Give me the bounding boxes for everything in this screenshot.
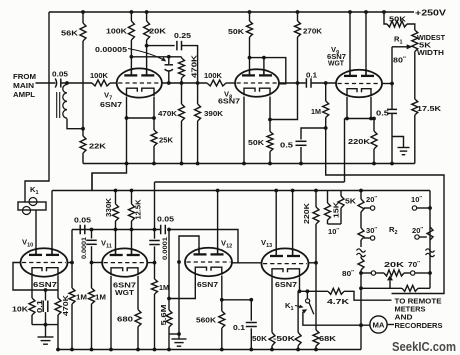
wire 15K 5K join xyxy=(328,223,342,225)
node V8 plate 2 xyxy=(262,56,266,60)
svg-text:68K: 68K xyxy=(319,334,337,343)
wire V11 grid stub xyxy=(92,262,103,264)
resistor 20K xyxy=(144,12,150,46)
node tap10 xyxy=(428,206,432,210)
wire V12 k right xyxy=(221,276,223,300)
node 1M a bus xyxy=(70,348,74,352)
node 0.5V9 bus xyxy=(390,162,394,166)
wire V8 plate pins xyxy=(250,58,264,76)
label 10K xyxy=(12,305,29,314)
node trimmer-grid xyxy=(167,81,171,85)
label 22K xyxy=(89,142,107,151)
node V7 k right xyxy=(152,116,156,120)
wire pot line xyxy=(361,272,430,274)
svg-text:MAIN: MAIN xyxy=(13,81,34,90)
wire 5.6M bus xyxy=(168,334,170,350)
node 0.05b left xyxy=(153,228,157,232)
svg-text:0.0001: 0.0001 xyxy=(162,237,169,260)
resistor 220K xyxy=(371,119,377,164)
node V9 k1 xyxy=(345,117,349,121)
resistor 1M b xyxy=(89,263,95,350)
svg-text:100K: 100K xyxy=(106,27,128,36)
label 6SN7 V13 xyxy=(275,280,297,289)
node 0.1b bus xyxy=(249,348,253,352)
svg-text:1M: 1M xyxy=(95,293,106,302)
ground V9 xyxy=(398,148,410,155)
label 0.05 b xyxy=(157,215,175,224)
node 22K bias xyxy=(125,162,129,166)
label 1M b xyxy=(95,293,106,302)
potentiometer 20K xyxy=(384,270,404,288)
node V9 k2 xyxy=(369,117,373,121)
label 4.7K xyxy=(327,297,350,306)
label 0.5 V9 xyxy=(376,109,390,118)
node chain top right xyxy=(428,271,432,275)
wire input to grid xyxy=(61,82,92,84)
wire V7 grid out xyxy=(162,82,208,84)
wire 220Kb down xyxy=(315,263,317,330)
node K1 tap xyxy=(306,289,310,293)
resistor 70in xyxy=(402,285,418,291)
node 5.6M top xyxy=(167,297,171,301)
wire cathode out xyxy=(300,290,329,292)
node bus-270K xyxy=(296,10,300,14)
wire V12 plate pin xyxy=(217,191,219,256)
label 5K chain xyxy=(345,197,357,206)
label 0.1 coupling xyxy=(306,71,318,80)
svg-text:25K: 25K xyxy=(159,136,174,145)
svg-text:0.05: 0.05 xyxy=(157,215,175,224)
node V9 grid xyxy=(390,82,394,86)
node 0.5 bus xyxy=(299,162,303,166)
node V12 k right xyxy=(220,298,224,302)
tap 10in xyxy=(412,206,430,210)
label 12.5K xyxy=(134,199,143,220)
wire V10 grid stub xyxy=(68,262,73,264)
wire V9 grid right xyxy=(382,83,392,85)
wire 5.6M gnd link xyxy=(169,333,179,335)
wire 470K to bus xyxy=(57,325,59,350)
resistor 1M a xyxy=(69,263,75,350)
node V8 plate 1 xyxy=(248,56,252,60)
svg-text:50K: 50K xyxy=(252,334,268,343)
wire row1 bus xyxy=(83,163,415,165)
resistor 4.7K xyxy=(328,288,392,300)
wire V7 cathode bus xyxy=(127,117,155,119)
wire V9 plate pins xyxy=(350,12,366,76)
svg-text:20K: 20K xyxy=(149,27,167,36)
svg-text:1M: 1M xyxy=(159,283,169,292)
label 470K V10 xyxy=(61,294,70,316)
resistor 220K b xyxy=(313,191,319,263)
label 50K V13a xyxy=(252,334,268,343)
wire V11 k left xyxy=(110,276,112,350)
label 50K V8 cathode xyxy=(248,138,265,147)
label 17.5K xyxy=(417,104,442,113)
node V8 grid loop xyxy=(296,81,300,85)
ground V12 xyxy=(172,334,187,346)
label 80in chain xyxy=(342,269,354,278)
node bus-100K xyxy=(130,10,134,14)
svg-text:470K: 470K xyxy=(158,109,178,118)
wire 0.5 V9 down xyxy=(391,113,393,163)
node 50K bus xyxy=(268,162,272,166)
svg-text:270K: 270K xyxy=(303,27,323,36)
resistor 100K plate xyxy=(128,12,134,57)
label 1M c xyxy=(159,283,169,292)
relay K1 coil xyxy=(18,198,46,215)
label 680 xyxy=(117,315,133,324)
label 25K xyxy=(159,136,174,145)
wire V8 out xyxy=(279,82,306,84)
resistor -50K xyxy=(295,291,301,349)
label 50K V8 xyxy=(228,27,245,36)
terminal a xyxy=(371,271,375,275)
label 6SN7 V12 xyxy=(197,280,218,289)
node -50K bus xyxy=(296,348,300,352)
svg-text:0.0001: 0.0001 xyxy=(81,237,88,259)
wire rail2a drop xyxy=(154,182,156,230)
resistor 470K fb xyxy=(179,57,185,83)
wire V9 cathode bus xyxy=(345,118,375,120)
capacitor 0.25 xyxy=(177,41,182,51)
label K1 switch xyxy=(285,301,304,312)
label K1 relay xyxy=(30,185,39,196)
wire 0.05a to V10 grid xyxy=(71,230,73,263)
capacitor 0.0001 a xyxy=(86,230,97,263)
tube V12 xyxy=(185,247,232,276)
label V10 xyxy=(22,238,33,249)
tube V13 xyxy=(262,248,309,279)
node bus V9 p2 xyxy=(364,10,368,14)
resistor 470K V10 xyxy=(55,290,61,325)
wire ground branch xyxy=(392,137,404,148)
node rail-R2 xyxy=(359,189,363,193)
svg-text:1M: 1M xyxy=(76,293,87,302)
node 0.1b top xyxy=(249,298,253,302)
node V7 plate junction xyxy=(130,55,134,59)
wire row2 bus xyxy=(58,349,361,351)
svg-text:0.00005: 0.00005 xyxy=(95,45,128,54)
svg-text:5K: 5K xyxy=(419,43,431,50)
label V9 xyxy=(331,45,339,56)
node input coil xyxy=(65,81,69,85)
node V13 k right xyxy=(298,289,302,293)
svg-text:WIDEST: WIDEST xyxy=(417,35,446,42)
label 70in xyxy=(408,260,420,269)
node 5.6M bus xyxy=(167,348,171,352)
node rail-220Kb xyxy=(314,189,318,193)
node 25K bus xyxy=(152,162,156,166)
svg-text:WGT: WGT xyxy=(115,288,134,297)
label 20K xyxy=(149,27,167,36)
tap 30in xyxy=(364,236,375,240)
node 1M bottom xyxy=(324,126,328,130)
label 10in a xyxy=(328,227,339,236)
wire 0.25 left xyxy=(147,45,175,47)
resistor 1M V9grid xyxy=(323,83,329,128)
capacitor trimmer 0.00005 xyxy=(165,57,173,83)
label 50K B+ xyxy=(389,15,407,24)
resistor 17.5K xyxy=(412,99,418,164)
resistor 50K B+ xyxy=(384,12,415,30)
resistor 270K xyxy=(295,12,301,83)
label 0.1 V12 xyxy=(233,323,246,332)
node coil-56K-22K xyxy=(81,127,85,131)
node 330K plate xyxy=(114,228,118,232)
svg-text:5K: 5K xyxy=(345,197,357,206)
wire grid loop down xyxy=(270,83,298,120)
node 470K-grid xyxy=(180,81,184,85)
svg-text:470K: 470K xyxy=(190,54,199,78)
svg-text:0.1: 0.1 xyxy=(306,71,318,80)
svg-text:6SN7: 6SN7 xyxy=(275,280,297,289)
label V12 xyxy=(221,239,232,250)
svg-text:50K: 50K xyxy=(389,15,407,24)
label 68K xyxy=(319,334,337,343)
svg-text:10K: 10K xyxy=(12,305,29,314)
resistor 20in xyxy=(358,191,364,229)
label 0.5 V8 xyxy=(280,141,294,150)
svg-text:6SN7: 6SN7 xyxy=(33,280,57,289)
node 0.1 top xyxy=(44,288,48,292)
label WGT V9 xyxy=(328,59,345,68)
node bus-50K right xyxy=(382,10,386,14)
capacitor 0.0001 b xyxy=(149,230,160,263)
svg-text:100K: 100K xyxy=(204,71,223,80)
wire V8 plate link xyxy=(250,58,286,84)
svg-text:330K: 330K xyxy=(104,197,113,217)
svg-text:15K: 15K xyxy=(332,201,341,218)
resistor 5K chain xyxy=(338,191,344,225)
resistor 25K xyxy=(151,118,157,164)
label V11 xyxy=(101,239,112,250)
wire 100K to V7 grid xyxy=(110,82,117,84)
wire V11 plate pins xyxy=(116,230,132,256)
label 20K pot xyxy=(384,260,405,269)
capacitor 0.5 V8 xyxy=(296,141,307,145)
wire V10 grid loop xyxy=(13,263,32,291)
wire V10 k pins xyxy=(32,276,58,291)
node V8 k left bus xyxy=(242,162,246,166)
svg-text:6SN7: 6SN7 xyxy=(100,100,122,109)
node 68K bus xyxy=(314,348,318,352)
wire V12 grid line xyxy=(168,230,170,299)
capacitor 0.05 b xyxy=(161,225,166,235)
potentiometer R1 5K xyxy=(412,30,418,99)
svg-text:680: 680 xyxy=(117,315,133,324)
svg-text:6SN7: 6SN7 xyxy=(218,97,240,106)
capacitor 0.1 V12 xyxy=(246,300,257,350)
resistor 100K interstage xyxy=(207,80,226,86)
wire V11 grid right stub xyxy=(147,262,154,264)
wire 0.5 to bus xyxy=(300,147,302,164)
label 100K plate xyxy=(106,27,128,36)
svg-text:17.5K: 17.5K xyxy=(417,104,442,113)
svg-text:FROM: FROM xyxy=(13,72,36,81)
node V12 grid left xyxy=(177,260,181,264)
capacitor 0.5 V9 xyxy=(387,109,397,113)
label 6SN7 V9 xyxy=(327,52,346,61)
svg-text:0.05: 0.05 xyxy=(74,216,92,225)
label 1M V9grid xyxy=(311,107,321,116)
node 0.05b right xyxy=(167,228,171,232)
node bus-56K xyxy=(81,10,85,14)
terminal b xyxy=(411,271,415,275)
label 6SN7 V10 xyxy=(33,280,57,289)
node 1M b bus xyxy=(90,348,94,352)
label FROM MAIN AMPL xyxy=(13,72,36,99)
label 15K xyxy=(332,201,341,218)
node rail-330K xyxy=(114,189,118,193)
svg-text:100K: 100K xyxy=(90,71,109,80)
capacitor 0.05 input xyxy=(55,79,61,88)
label 30in xyxy=(366,226,377,235)
wire 0.1 to V9 xyxy=(312,82,337,84)
wire V8 k left xyxy=(243,97,245,164)
svg-text:470K: 470K xyxy=(61,294,70,316)
label V13 xyxy=(261,238,272,249)
resistor 56K xyxy=(80,12,86,129)
wire V7 bias to row2 xyxy=(92,118,127,191)
wire R1 wiper xyxy=(392,44,412,49)
wire V13 grid right xyxy=(309,262,317,264)
resistor 50K V8 cathode xyxy=(267,120,273,164)
node bus-20K xyxy=(145,10,149,14)
wire rail2b to V10 xyxy=(51,191,53,256)
svg-text:56K: 56K xyxy=(61,29,79,38)
node rail-12.5K xyxy=(130,189,134,193)
tube V10 xyxy=(21,248,68,277)
capacitor 0.1 V10 xyxy=(43,290,48,325)
ground V10 xyxy=(38,325,54,345)
label 560K xyxy=(196,316,217,325)
label SeekIC.com xyxy=(392,340,456,354)
label 0.1 V10 xyxy=(35,300,44,313)
wire 100K to V8 xyxy=(226,82,236,84)
wire grid to 0.5cap xyxy=(391,84,393,110)
node 50Ka bus xyxy=(270,348,274,352)
wire V8 k right xyxy=(269,97,271,120)
tube V7 xyxy=(117,68,162,98)
wire top B+ bus xyxy=(49,11,414,13)
wire V13 k right xyxy=(299,278,301,292)
wire V12 k bus xyxy=(221,300,223,311)
node V10 grid cpl xyxy=(70,261,74,265)
label 56K xyxy=(61,29,79,38)
svg-text:0.05: 0.05 xyxy=(52,70,69,79)
node bus left end xyxy=(56,348,60,352)
wire plate node V11 xyxy=(72,229,160,231)
wire V12 k left link xyxy=(169,274,195,299)
svg-text:390K: 390K xyxy=(204,109,224,118)
svg-text:0.25: 0.25 xyxy=(174,31,192,40)
wire V7 left plate pin xyxy=(130,57,132,76)
svg-text:5.6M: 5.6M xyxy=(159,304,168,325)
label 470K div xyxy=(158,109,178,118)
capacitor 0.1 coupling xyxy=(306,78,311,88)
node 20K-0.25 xyxy=(145,44,149,48)
label 0.00005 with pointer xyxy=(95,45,166,62)
node V8drop-grid xyxy=(196,81,200,85)
resistor 50K V8 plate xyxy=(247,12,253,58)
resistor 15K xyxy=(325,191,331,225)
node 80in bottom xyxy=(359,271,363,275)
node 390K bus xyxy=(196,162,200,166)
svg-text:SeekIC.com: SeekIC.com xyxy=(392,340,456,354)
label 0.05 input xyxy=(52,70,69,79)
svg-text:0.1: 0.1 xyxy=(233,323,246,332)
svg-text:220K: 220K xyxy=(302,202,311,224)
node rail-V12 xyxy=(216,189,220,193)
meter MA xyxy=(370,316,394,333)
svg-text:22K: 22K xyxy=(89,142,107,151)
label 5.6M xyxy=(159,304,168,325)
wire feedback line left xyxy=(25,12,49,202)
node gnd stem xyxy=(44,323,48,327)
resistor 22K xyxy=(80,129,86,164)
node 1M top xyxy=(324,81,328,85)
resistor 68K xyxy=(313,330,319,350)
tap 20in xyxy=(364,206,375,210)
tube V8 xyxy=(235,69,279,97)
node wiper join xyxy=(359,286,363,290)
node meter tap xyxy=(359,323,363,327)
node rail-V13b xyxy=(291,189,295,193)
wire V13 plate pins xyxy=(276,191,292,257)
node V11 grid xyxy=(90,261,94,265)
label R2 xyxy=(389,225,398,236)
label 270K xyxy=(303,27,323,36)
node V12 k bus xyxy=(220,348,224,352)
svg-text:RECORDERS: RECORDERS xyxy=(395,321,443,330)
resistor 560K xyxy=(219,311,225,350)
wire 0.5 branch xyxy=(301,128,326,140)
node 220K bus xyxy=(372,162,376,166)
label 220K b xyxy=(302,202,311,224)
label 0.05 a xyxy=(74,216,92,225)
inductor input coil xyxy=(57,83,67,118)
wire wiper down xyxy=(391,47,393,84)
label TO REMOTE METERS AND RECORDERS xyxy=(395,297,443,331)
wire 0.25 right to V8 grid drop xyxy=(182,46,198,83)
wire V13 k left xyxy=(271,278,273,333)
label +250V xyxy=(415,9,447,18)
node 470K bus xyxy=(180,162,184,166)
node 1M c bus xyxy=(153,348,157,352)
wire K1 to meter xyxy=(303,312,370,325)
node V11 k bus xyxy=(109,348,113,352)
svg-text:0.5: 0.5 xyxy=(376,109,390,118)
label 100K input xyxy=(90,71,109,80)
resistor 20in b xyxy=(427,227,433,240)
node 680 bus xyxy=(136,348,140,352)
wire wiper bus xyxy=(361,273,430,288)
capacitor 0.05 a xyxy=(80,225,85,235)
node 12.5K plate xyxy=(130,228,134,232)
wire bias T xyxy=(91,173,93,191)
svg-text:12.5K: 12.5K xyxy=(134,199,143,220)
svg-text:220K: 220K xyxy=(348,137,371,146)
wire V10 cathode bus xyxy=(32,289,58,291)
resistor 470K div xyxy=(179,83,185,164)
wire V7 right plate pin xyxy=(146,46,148,76)
svg-text:4.7K: 4.7K xyxy=(327,297,350,306)
label 80in R1 xyxy=(393,56,406,65)
label 6SN7 V11 xyxy=(113,281,136,290)
wire V7 cathode right xyxy=(153,97,155,118)
svg-text:50K: 50K xyxy=(248,138,265,147)
